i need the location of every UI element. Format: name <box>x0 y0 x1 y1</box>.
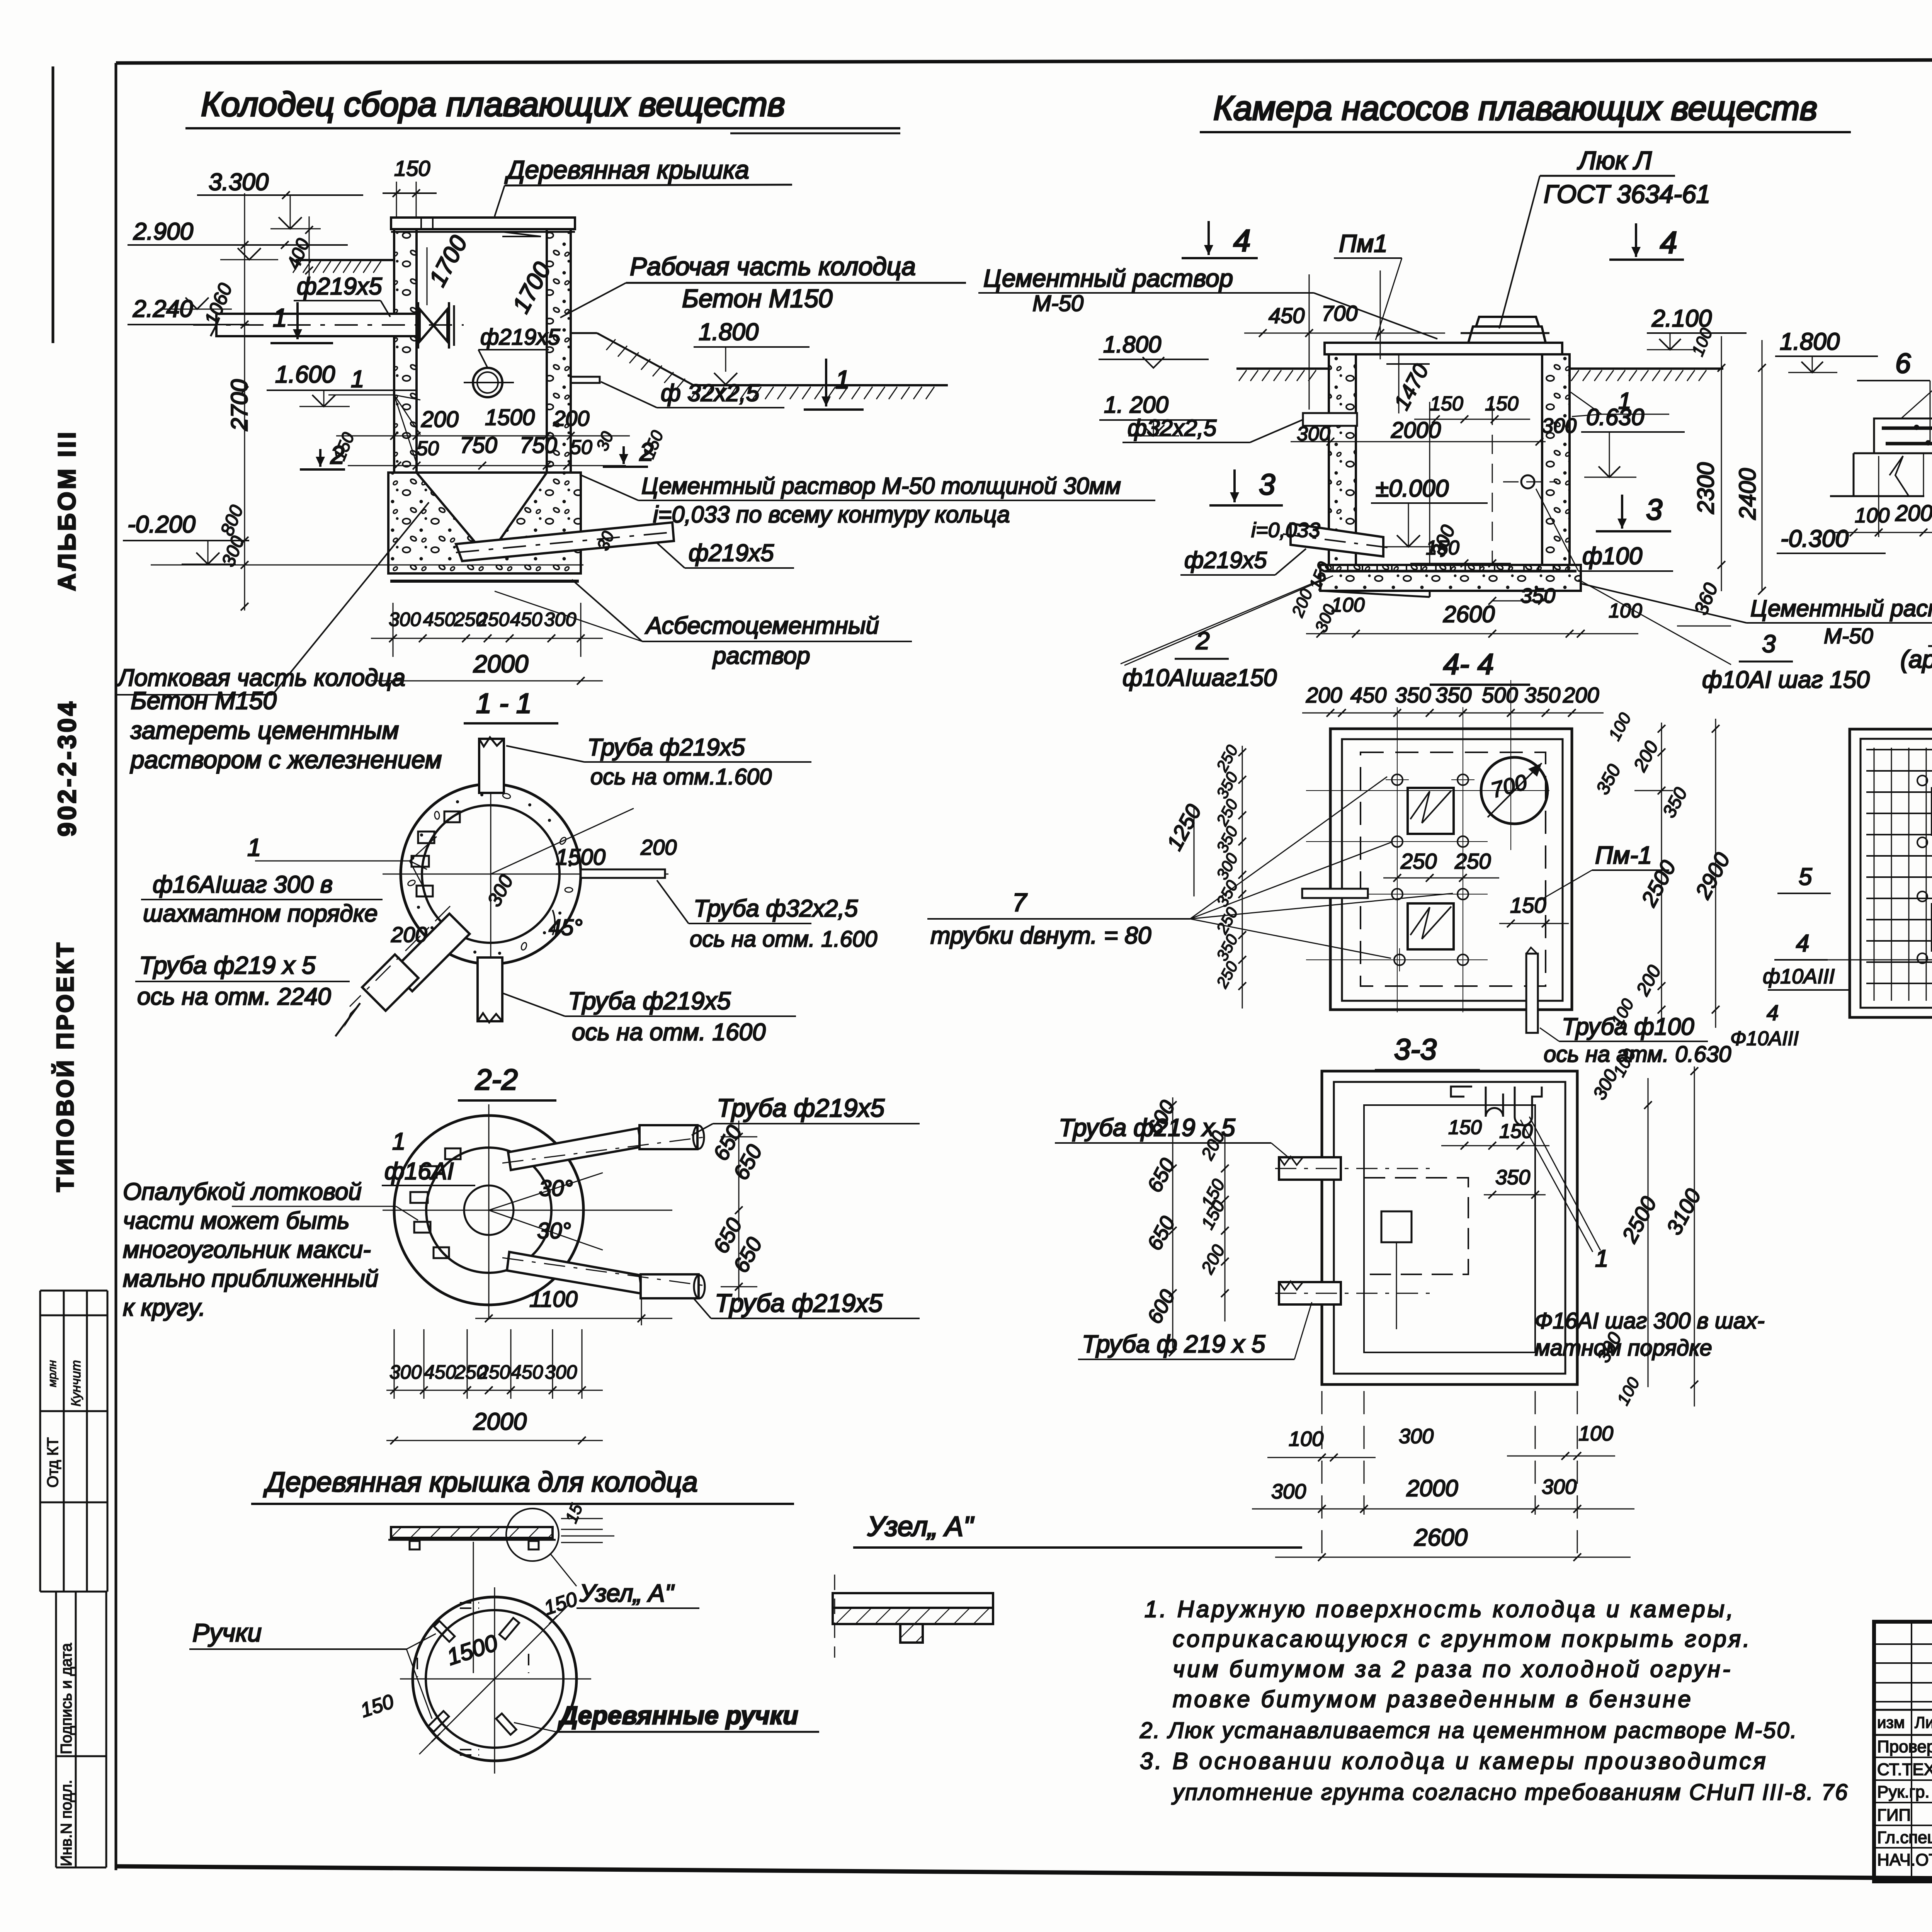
svg-text:Колодец сбора плавающих вещ: Колодец сбора плавающих веществ <box>201 85 785 123</box>
pm1 title <box>1900 614 1932 673</box>
svg-text:мально приближенный: мально приближенный <box>123 1265 378 1292</box>
well: small outlet circle f219x5 <box>464 368 514 397</box>
section marker 3 right <box>1536 489 1673 571</box>
svg-text:200: 200 <box>640 835 677 859</box>
label: level 1.800 right bench <box>694 319 864 410</box>
2-2 dim 1100 <box>475 1287 672 1325</box>
svg-text:350: 350 <box>1435 683 1471 707</box>
svg-text:3: 3 <box>1762 630 1776 658</box>
label: Pm1 top <box>1334 230 1402 340</box>
pm1 marker 4 f10AIII left lower <box>1730 1000 1799 1050</box>
plan 3-3 marker 1 f16AI <box>1520 1117 1765 1361</box>
svg-text:750: 750 <box>520 433 557 458</box>
chamber: rotated 1470 dim <box>1386 355 1433 414</box>
pm1 marker 4 left <box>1763 930 1932 990</box>
section 1-1 ring <box>401 784 581 964</box>
pm1 marker 5 left <box>1777 864 1831 893</box>
well: inlet pipe with valve (f219x5) <box>193 302 464 349</box>
svg-text:45°: 45° <box>549 915 583 940</box>
svg-text:1500: 1500 <box>556 845 605 870</box>
plan 4-4 dim 150 <box>1499 893 1569 927</box>
section marker 4 second <box>1609 223 1684 260</box>
svg-text:200: 200 <box>391 922 427 947</box>
svg-text:Деревянные ручки: Деревянные ручки <box>558 1701 798 1730</box>
5-5 fan lines and markers <box>1901 310 1932 480</box>
svg-text:Рук.гр.: Рук.гр. <box>1877 1782 1930 1801</box>
chamber: level 0.630 <box>1581 404 1685 477</box>
vertical text: 902-2-304 <box>53 699 81 837</box>
cover side view <box>388 1527 556 1673</box>
svg-text:части может быть: части может быть <box>123 1207 350 1234</box>
svg-text:Труба ф219х5: Труба ф219х5 <box>717 1094 885 1122</box>
svg-text:450: 450 <box>1269 303 1304 328</box>
svg-text:200: 200 <box>1306 683 1342 707</box>
svg-text:7: 7 <box>1012 888 1027 917</box>
well: outlet pipe through base (f219) <box>456 522 674 561</box>
svg-text:450: 450 <box>1350 683 1386 707</box>
well: wooden cover plank <box>391 218 575 236</box>
svg-text:200: 200 <box>421 407 459 432</box>
title: chamber <box>1200 89 1851 132</box>
label 4-4 <box>1430 648 1530 685</box>
svg-text:i=0,033: i=0,033 <box>1251 519 1320 542</box>
1-1 label truba bottom right <box>502 987 796 1046</box>
svg-text:Гл.спец.отд: Гл.спец.отд <box>1877 1828 1932 1847</box>
well: right wall concrete <box>547 229 571 473</box>
svg-text:2300: 2300 <box>1693 463 1719 514</box>
plan 4-4 outer square <box>1330 729 1572 1010</box>
svg-text:ось на отм. 1600: ось на отм. 1600 <box>572 1019 765 1046</box>
svg-text:i=0,033 по всему контуру к: i=0,033 по всему контуру кольца <box>653 502 1010 527</box>
svg-text:Узел„ А": Узел„ А" <box>579 1579 675 1607</box>
svg-text:чим битумом за 2 раза по х: чим битумом за 2 раза по холодной огрун- <box>1173 1656 1733 1682</box>
level 3.300 <box>197 169 363 229</box>
svg-text:250: 250 <box>478 1361 510 1383</box>
svg-text:-0.300: -0.300 <box>1781 526 1849 552</box>
svg-text:Провер.: Провер. <box>1877 1737 1932 1756</box>
well: ground line left with hatch <box>293 260 394 273</box>
svg-text:150: 150 <box>1448 1116 1482 1139</box>
5-5 label 6 <box>1857 348 1930 444</box>
chamber: right level 1.800 <box>1775 328 1878 372</box>
1-1 bottom pipe <box>478 957 502 1022</box>
well: base / channel part <box>388 473 581 581</box>
section 2-2 title <box>458 1063 556 1100</box>
svg-text:700: 700 <box>1321 301 1357 325</box>
5-5 dims 100 200 <box>1833 456 1932 537</box>
1-1 labels <box>141 808 677 947</box>
cover plan circle <box>400 1587 591 1774</box>
section marker 3 left <box>1209 468 1320 542</box>
svg-text:2600: 2600 <box>1443 601 1495 627</box>
svg-text:Подпись и дата: Подпись и дата <box>58 1643 75 1754</box>
plan 4-4 truba f100 <box>1526 947 1731 1067</box>
svg-text:200: 200 <box>553 406 589 430</box>
svg-text:Пм-1: Пм-1 <box>1595 841 1652 869</box>
svg-text:450: 450 <box>510 609 543 630</box>
svg-text:Деревянная крышка для колод: Деревянная крышка для колодца <box>263 1467 698 1498</box>
title block left sig table <box>1874 1622 1932 1881</box>
2-2 angle labels <box>489 1173 603 1250</box>
svg-text:750: 750 <box>460 433 497 458</box>
svg-text:250: 250 <box>477 609 510 630</box>
well: ground bench right with hatch <box>571 333 948 399</box>
svg-text:Лист: Лист <box>1915 1713 1932 1731</box>
markers 2 f10AI shag 150 <box>1121 576 1333 691</box>
base dim row 300 450 250 250 450 300 <box>371 603 603 657</box>
svg-text:2. Люк устанавливается на ц: 2. Люк устанавливается на цементном раст… <box>1139 1718 1798 1743</box>
svg-text:к кругу.: к кругу. <box>123 1294 206 1321</box>
svg-text:Пм1: Пм1 <box>1339 230 1388 257</box>
notes text <box>1139 1596 1849 1805</box>
plan 3-3 bottom dims <box>1252 1391 1634 1565</box>
chamber: left pipe stub <box>1303 413 1357 426</box>
chamber level 1.200 left <box>1099 392 1210 436</box>
plan 4-4 left dims 1250 etc <box>1162 742 1246 1009</box>
svg-text:ф16АI: ф16АI <box>384 1158 454 1185</box>
label: Luk L GOST <box>1499 146 1710 328</box>
level 1.600 <box>267 361 417 406</box>
svg-text:50: 50 <box>570 436 592 459</box>
well: right pipe stub f32x2.5 <box>571 377 600 383</box>
svg-text:ф219х5: ф219х5 <box>297 273 382 300</box>
title: well <box>185 85 900 133</box>
margin tick line top-left <box>52 66 54 343</box>
svg-text:матном порядке: матном порядке <box>1535 1335 1712 1361</box>
plan 4-4 dashed inner <box>1361 752 1546 986</box>
svg-text:мрлн: мрлн <box>46 1360 59 1387</box>
chamber: 300 rotated near bottom <box>1427 522 1459 560</box>
uzel A big drawing <box>833 1575 993 1658</box>
chamber level 1.800 left <box>1099 332 1209 368</box>
vertical text: TIPOVOY PROEKT <box>52 941 79 1192</box>
svg-text:4: 4 <box>1767 1000 1779 1025</box>
plan 4-4 small square 2 <box>1408 903 1454 949</box>
1-1 right thin pipe f32 <box>581 869 665 878</box>
section marker 2 right <box>603 428 667 467</box>
svg-text:300: 300 <box>1271 1480 1306 1503</box>
svg-text:1. Наружную поверхность коло: 1. Наружную поверхность колодца и камеры… <box>1145 1596 1735 1622</box>
svg-text:Узел„ А": Узел„ А" <box>867 1511 975 1542</box>
dims 200 1500 200 <box>336 405 630 440</box>
label: f219x5 small circle <box>478 325 560 368</box>
plan 3-3 left pipes <box>1275 1156 1430 1304</box>
chamber rebar 1 fan right <box>1571 388 1669 417</box>
svg-text:Труба ф219х5: Труба ф219х5 <box>587 734 745 761</box>
svg-text:1.800: 1.800 <box>1780 328 1840 355</box>
1-1 diagonal pipe f219 <box>335 906 469 1036</box>
svg-text:Инв.N подл.: Инв.N подл. <box>58 1780 75 1866</box>
svg-text:ф100: ф100 <box>1582 543 1642 570</box>
svg-text:150: 150 <box>1510 893 1546 917</box>
5-5 support block <box>1830 453 1924 496</box>
chamber: ground lines <box>1236 369 1723 381</box>
chamber: right dim chain 2300 2400 <box>1688 325 1766 595</box>
pm1 outer square <box>1850 729 1932 1017</box>
svg-text:изм: изм <box>1877 1713 1905 1731</box>
svg-text:1.800: 1.800 <box>1103 332 1161 357</box>
svg-text:ось на отм. 1.600: ось на отм. 1.600 <box>690 927 877 952</box>
svg-text:200: 200 <box>1563 683 1599 707</box>
well: left wall concrete <box>394 229 417 473</box>
plan 4-4 centerlines <box>1306 680 1549 1012</box>
svg-text:НАЧ.ОТД.: НАЧ.ОТД. <box>1877 1850 1932 1869</box>
margin stamp boxes lower <box>56 1592 106 1867</box>
chamber: +-0.000 level <box>1371 475 1488 547</box>
2-2 circles <box>383 1104 672 1320</box>
svg-text:раствором с железнением: раствором с железнением <box>130 746 442 774</box>
label: cement rastvor M-50 (chamber) <box>978 264 1437 339</box>
label: rabochaya chast <box>560 252 966 318</box>
label f32x2.5 chamber left <box>1122 415 1330 445</box>
svg-text:100: 100 <box>1578 1422 1613 1445</box>
level 2.240 <box>128 296 249 325</box>
svg-text:трубки dвнут. = 80: трубки dвнут. = 80 <box>930 922 1151 949</box>
svg-text:1: 1 <box>273 303 287 332</box>
svg-text:1: 1 <box>351 366 364 393</box>
uzel A big title <box>853 1511 1302 1548</box>
chamber: bottom-left big pipe f219 <box>1283 524 1391 556</box>
svg-text:4: 4 <box>1796 930 1809 957</box>
2-2 lower diagonal pipe <box>502 1252 707 1298</box>
svg-text:100: 100 <box>1331 594 1365 616</box>
svg-text:50: 50 <box>417 437 439 460</box>
plan 3-3 inner dashed rect <box>1364 1178 1468 1329</box>
chamber: roof slab <box>1325 317 1562 354</box>
svg-text:Труба ф219 х 5: Труба ф219 х 5 <box>139 951 316 979</box>
vertical text: ALBOM III <box>53 430 81 591</box>
svg-text:ф16АIшаг 300 в: ф16АIшаг 300 в <box>153 871 333 898</box>
chamber: 360 dim right <box>1677 580 1731 626</box>
dims 50 750 750 50 <box>348 433 626 469</box>
section marker 2 left <box>300 430 358 469</box>
plan 4-4 right dims <box>1592 709 1735 1029</box>
label f219x5 chamber bottom-left <box>1180 547 1340 635</box>
plan 4-4 small square 1 <box>1408 788 1454 834</box>
4-4 embedded plate left <box>1302 889 1368 898</box>
svg-text:100: 100 <box>1289 1427 1323 1451</box>
svg-text:300: 300 <box>1542 1475 1577 1498</box>
label: f219x5 inlet <box>294 273 390 317</box>
base dim 2000 <box>371 650 603 685</box>
svg-text:1.800: 1.800 <box>699 319 759 345</box>
Opalubkoy text block <box>123 1179 418 1321</box>
plan 4-4 small sleeve circles <box>1386 768 1475 971</box>
svg-text:0.630: 0.630 <box>1586 404 1644 430</box>
well: inner 1700 dims <box>424 231 556 317</box>
cover 15 dim <box>561 1501 614 1543</box>
svg-text:Цементный раствор М-50 толщ: Цементный раствор М-50 толщиной 30мм <box>641 473 1121 499</box>
svg-text:Деревянная крышка: Деревянная крышка <box>504 155 749 184</box>
plan 3-3 labels truba <box>1055 1114 1312 1359</box>
svg-text:2000: 2000 <box>1406 1475 1458 1501</box>
svg-text:350: 350 <box>1520 584 1555 607</box>
2-2 right dims 650 <box>708 1121 767 1302</box>
svg-text:Труба ф219х5: Труба ф219х5 <box>568 987 731 1015</box>
label: beton m150 zateret <box>130 687 442 774</box>
svg-text:500: 500 <box>1482 683 1518 707</box>
svg-text:2-2: 2-2 <box>475 1063 518 1096</box>
svg-text:1.600: 1.600 <box>275 361 335 388</box>
svg-text:1: 1 <box>1618 388 1631 414</box>
svg-text:±0.000: ±0.000 <box>1376 475 1449 502</box>
svg-text:М-50: М-50 <box>1032 291 1083 316</box>
svg-text:ось на отм. 2240: ось на отм. 2240 <box>137 983 331 1010</box>
chamber: inner dim 2000 <box>1291 414 1577 446</box>
chamber: left wall <box>1329 354 1356 565</box>
1-1 top right label truba <box>506 734 811 789</box>
1-1 embedded sleeves in ring <box>412 811 460 896</box>
svg-text:150: 150 <box>1485 393 1519 415</box>
pm1 rebar grid vertical <box>1874 748 1932 1001</box>
svg-text:450: 450 <box>424 1361 456 1383</box>
level -0.200 <box>123 511 583 565</box>
plan 3-3 right dims <box>1589 1046 1706 1408</box>
plan 3-3 title <box>1375 1033 1480 1070</box>
svg-text:ф 32х2,5: ф 32х2,5 <box>661 380 760 406</box>
svg-text:3: 3 <box>1259 468 1275 501</box>
section marker 1 left <box>270 302 333 343</box>
title block frame <box>1874 1622 1932 1881</box>
svg-text:ф10АI шаг 150: ф10АI шаг 150 <box>1702 667 1870 693</box>
svg-text:1: 1 <box>1595 1245 1608 1272</box>
svg-text:М-50: М-50 <box>1824 624 1873 648</box>
plan 4-4 label Pm-1 <box>1540 841 1669 900</box>
svg-text:1: 1 <box>835 365 850 394</box>
svg-text:2600: 2600 <box>1414 1524 1468 1551</box>
svg-text:150: 150 <box>1499 1120 1533 1143</box>
plan 4-4 dims 250 250 <box>1383 849 1499 882</box>
svg-text:4: 4 <box>1233 223 1251 258</box>
svg-text:300: 300 <box>544 609 577 630</box>
svg-text:Рабочая часть колодца: Рабочая часть колодца <box>630 252 916 281</box>
svg-text:ф32х2,5: ф32х2,5 <box>1128 415 1217 441</box>
cover plan diagonal dim 1500 <box>358 1588 580 1754</box>
svg-text:Опалубкой лотковой: Опалубкой лотковой <box>123 1179 362 1205</box>
2-2 dim 2000 <box>386 1408 603 1444</box>
label: f219x5 under <box>657 540 794 568</box>
svg-text:3. В основании колодца и к: 3. В основании колодца и камеры производ… <box>1140 1748 1768 1774</box>
leader lines 1 to wall joints <box>328 366 420 466</box>
plan 4-4 top dims <box>1302 683 1604 717</box>
label 1-1 <box>464 688 558 723</box>
left vertical dim chain <box>200 193 314 611</box>
svg-text:ГИП: ГИП <box>1877 1806 1911 1825</box>
svg-text:Кунчит: Кунчит <box>69 1360 83 1406</box>
svg-text:Ручки: Ручки <box>192 1618 262 1647</box>
svg-text:250: 250 <box>1454 849 1491 873</box>
svg-text:1 - 1: 1 - 1 <box>476 688 532 719</box>
svg-text:(армирование): (армирование) <box>1900 645 1932 673</box>
chamber: bottom dims 100 2600 350 100 <box>1306 584 1642 638</box>
svg-text:Камера насосов плавающих ве: Камера насосов плавающих веществ <box>1213 89 1817 127</box>
dim 150 above cover <box>383 156 437 216</box>
svg-text:Цементный раствор: Цементный раствор <box>1750 595 1932 621</box>
svg-text:шахматном порядке: шахматном порядке <box>143 900 378 927</box>
svg-text:уплотнение грунта согласно: уплотнение грунта согласно требованиям С… <box>1171 1780 1849 1805</box>
svg-text:СТ.ТЕХН.: СТ.ТЕХН. <box>1877 1760 1932 1779</box>
svg-text:многоугольник макси-: многоугольник макси- <box>123 1236 371 1263</box>
svg-text:3.300: 3.300 <box>209 169 269 196</box>
plan 3-3 outer square <box>1322 1071 1577 1384</box>
plan 4-4 circle 700 <box>1481 757 1548 824</box>
label: cement rastvor M-50 right <box>1580 583 1932 648</box>
svg-text:раствор: раствор <box>712 643 810 669</box>
2-2 labels <box>382 1094 920 1318</box>
label: asbestotsementny rastvor <box>495 429 912 669</box>
svg-text:5: 5 <box>1799 864 1812 890</box>
chamber: f100 pipe circle <box>1503 475 1557 488</box>
chamber: right level 2.100 <box>1647 305 1747 350</box>
uzel A marker circle <box>506 1509 699 1608</box>
svg-text:-0.200: -0.200 <box>128 511 196 538</box>
svg-text:6: 6 <box>1895 348 1911 379</box>
1-1 ring speckles <box>407 793 573 955</box>
cover plan handles <box>417 1603 529 1755</box>
plan 3-3 left dim columns <box>1143 1097 1229 1356</box>
svg-text:ТИПОВОЙ ПРОЕКТ: ТИПОВОЙ ПРОЕКТ <box>52 941 79 1192</box>
svg-text:300: 300 <box>1297 423 1330 445</box>
svg-text:Асбестоцементный: Асбестоцементный <box>645 612 879 639</box>
svg-text:2000: 2000 <box>1391 418 1441 443</box>
1-1 center cross <box>383 767 668 983</box>
chamber: interior centerlines 150-150 <box>1410 393 1530 567</box>
svg-text:ф219х5: ф219х5 <box>689 540 774 566</box>
svg-text:ф10АIII: ф10АIII <box>1763 965 1835 988</box>
svg-text:1100: 1100 <box>529 1287 578 1312</box>
chamber: bottom slab <box>1320 565 1581 597</box>
svg-text:ф219х5: ф219х5 <box>1184 547 1267 573</box>
svg-text:Труба ф 219 х 5: Труба ф 219 х 5 <box>1082 1330 1265 1358</box>
svg-text:Труба ф32х2,5: Труба ф32х2,5 <box>694 895 858 922</box>
svg-text:100: 100 <box>1855 504 1889 527</box>
svg-text:затереть цементным: затереть цементным <box>130 716 399 744</box>
svg-text:450: 450 <box>511 1361 543 1383</box>
svg-text:1: 1 <box>247 833 261 861</box>
svg-text:4: 4 <box>1660 225 1677 260</box>
1-1 top pipe <box>479 737 504 793</box>
svg-text:2000: 2000 <box>473 650 529 678</box>
svg-text:Цементный раствор: Цементный раствор <box>983 264 1233 292</box>
markers 3 f10AI shag 150 right <box>1578 580 1870 693</box>
svg-text:2.900: 2.900 <box>133 218 193 245</box>
svg-text:Бетон М150: Бетон М150 <box>131 687 277 714</box>
1-1 right label truba f32 <box>657 880 877 952</box>
svg-text:902-2-304: 902-2-304 <box>53 699 81 837</box>
chamber: right wall <box>1542 354 1570 565</box>
svg-text:4- 4: 4- 4 <box>1443 648 1494 681</box>
svg-text:450: 450 <box>423 609 456 630</box>
svg-text:1500: 1500 <box>485 405 535 430</box>
svg-text:ось на отм.1.600: ось на отм.1.600 <box>590 764 772 789</box>
section marker 4 top <box>1182 221 1258 258</box>
svg-text:100: 100 <box>1609 600 1642 622</box>
svg-text:350: 350 <box>1495 1166 1530 1189</box>
svg-text:30°: 30° <box>537 1218 571 1243</box>
plan 3-3 top hooks <box>1441 1087 1549 1199</box>
svg-text:350: 350 <box>1524 683 1560 707</box>
2-2 dim row 300 450 250 250 450 300 <box>386 1329 603 1399</box>
svg-text:1. 200: 1. 200 <box>1104 392 1168 418</box>
label: lotkovaya chast <box>116 502 429 695</box>
2-2 embedded sleeves <box>410 1148 461 1258</box>
svg-text:ф10АIшаг150: ф10АIшаг150 <box>1122 665 1277 691</box>
chamber: dim 450 700 top-left <box>1244 270 1445 410</box>
2-2 upper diagonal pipe <box>502 1125 707 1170</box>
svg-text:2000: 2000 <box>473 1408 527 1435</box>
svg-text:300: 300 <box>545 1361 577 1383</box>
cover labels ruchki <box>189 1618 819 1732</box>
